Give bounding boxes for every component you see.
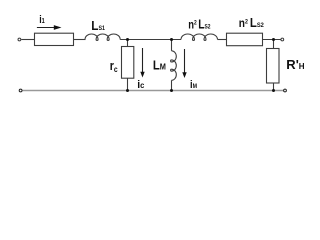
svg-text:ic: ic bbox=[137, 79, 145, 91]
